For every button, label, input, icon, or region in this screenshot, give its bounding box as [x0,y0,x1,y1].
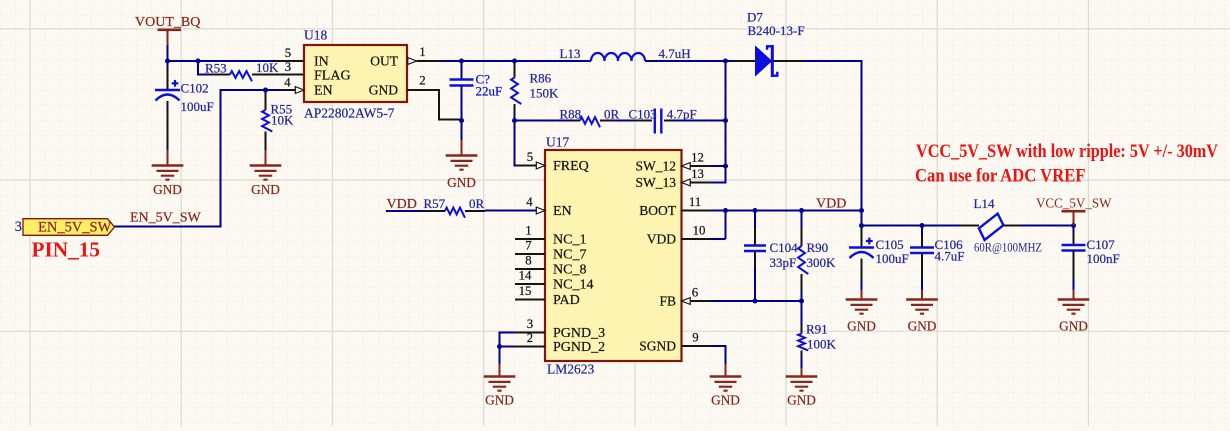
wire EN_5V_SW horizontal [115,226,222,228]
svg-text:FLAG: FLAG [314,69,351,84]
svg-text:GND: GND [847,319,876,334]
svg-text:9: 9 [692,331,698,345]
wire SW vertical [725,60,727,184]
wire BOOT to pin10 [712,211,726,240]
svg-text:100uF: 100uF [181,99,214,114]
svg-text:6: 6 [692,286,699,300]
wire FB net [712,300,803,302]
wire to FREQ pin [515,121,518,167]
svg-text:GND: GND [787,393,816,408]
svg-text:15: 15 [519,284,532,298]
U17 pin 3 PGND_3 [515,317,605,341]
svg-text:EN: EN [314,84,333,99]
svg-text:2: 2 [527,331,533,345]
resistor R55 10K [262,90,294,150]
svg-text:NC_8: NC_8 [553,263,586,278]
capacitor C105 100uF polarized [849,226,909,290]
U17 pin 15 PAD [515,284,580,308]
svg-text:EN_5V_SW: EN_5V_SW [130,211,202,226]
svg-text:EN: EN [553,204,572,219]
wire D7 to VDD node [804,60,863,62]
wire SW_13 stub [712,182,727,184]
diode D7 B240-13-F schottky [731,10,805,78]
node junction C104 bottom [753,299,758,304]
node junction at C102 top [165,59,170,64]
resistor R86 150K [511,61,559,121]
svg-text:13: 13 [691,167,704,181]
svg-text:Can use for ADC VREF: Can use for ADC VREF [915,167,1086,187]
svg-text:GND: GND [1059,319,1088,334]
op-amp U18 AP22802AW5-7 body [304,28,407,121]
wire main input horizontal [167,60,275,62]
svg-text:SW_12: SW_12 [636,159,677,174]
ground GND under R55 [250,166,282,198]
svg-text:3: 3 [285,60,291,74]
ground GND under R91 [786,377,818,408]
U17 pin 7 NC_7 [515,239,586,263]
ground GND under C? [446,156,478,191]
wire SW_12 stub [712,165,726,167]
svg-text:NC_1: NC_1 [553,233,586,248]
power port VCC_5V_SW [1036,197,1112,226]
svg-text:GND: GND [485,393,514,408]
resistor R57 0R [424,196,486,218]
svg-text:FREQ: FREQ [553,159,589,174]
svg-text:4: 4 [284,76,291,90]
ground stem C102 [167,150,169,166]
node junction R90 bottom [799,299,804,304]
svg-text:L14: L14 [974,196,995,211]
svg-text:33pF: 33pF [770,255,797,270]
svg-text:SGND: SGND [639,339,676,354]
ground GND under SGND [710,377,742,408]
power port VOUT_BQ [135,15,200,45]
ground stem R55 [265,150,267,166]
U17 pin 10 VDD [647,224,712,247]
ground GND under C105 [846,300,878,334]
U17 pin 12 SW_12 [636,151,712,174]
svg-text:4.7uF: 4.7uF [935,249,965,264]
svg-text:NC_14: NC_14 [553,278,593,293]
svg-text:IN: IN [314,55,329,70]
node junction R53 branch [196,59,201,64]
node junction PGND_2 [497,344,502,349]
node junction R90 top [799,208,804,213]
svg-text:100uF: 100uF [876,251,909,266]
svg-text:12: 12 [691,151,704,165]
U17 pin 5 FREQ [516,150,589,174]
wire FREQ net horizontal [515,120,572,122]
svg-text:R86: R86 [530,71,552,86]
capacitor C? 22uF [450,61,503,121]
wire C103 to SW node [672,120,727,122]
resistor R91 100K [798,301,836,368]
U17 pin 8 NC_8 [515,254,586,278]
U18 pin 5 IN [274,46,329,70]
svg-text:VCC_5V_SW with low ripple: 5V: VCC_5V_SW with low ripple: 5V +/- 30mV [916,142,1219,162]
wire PGND_2 [500,346,516,348]
svg-text:C107: C107 [1087,237,1116,252]
svg-text:14: 14 [519,269,532,283]
svg-text:VOUT_BQ: VOUT_BQ [135,15,200,30]
svg-text:11: 11 [689,195,701,209]
svg-text:10: 10 [693,224,706,238]
op-amp U17 LM2623 body [545,135,682,377]
ground stem C106 [921,290,923,300]
svg-text:4.7uH: 4.7uH [659,46,691,61]
svg-text:100nF: 100nF [1087,251,1120,266]
U18 pin 2 GND [369,74,461,121]
ferrite bead L14 60R@100MHZ [960,196,1042,255]
ground stem SGND [725,364,727,377]
svg-text:PGND_2: PGND_2 [553,340,605,355]
svg-text:PIN_15: PIN_15 [32,238,101,262]
svg-text:PAD: PAD [553,293,580,308]
wire VDD to R57 [386,210,424,212]
U17 pin 11 BOOT [639,195,711,218]
node junction VDD corner [859,208,864,213]
capacitor C102 100uF polarized [155,62,214,150]
svg-text:EN_5V_SW: EN_5V_SW [38,219,112,235]
svg-text:LM2623: LM2623 [547,362,595,377]
svg-text:10K: 10K [271,113,294,128]
inductor L13 4.7uH [560,46,691,61]
U17 pin 2 PGND_2 [515,331,605,355]
svg-text:GND: GND [711,393,740,408]
U17 pin 9 SGND [639,331,711,354]
svg-text:PGND_3: PGND_3 [553,326,605,341]
ground GND under PGND [484,377,516,408]
svg-text:OUT: OUT [370,54,398,69]
svg-text:4: 4 [526,195,533,209]
svg-text:0R: 0R [604,106,620,121]
svg-text:4.7pF: 4.7pF [667,106,697,121]
resistor R88 0R [560,106,620,127]
svg-text:U17: U17 [546,135,569,150]
U18 pin 3 FLAG [285,60,351,84]
svg-text:GND: GND [153,182,182,197]
node junction SW top [723,59,728,64]
node junction R86 bottom [512,118,517,123]
svg-text:60R@100MHZ: 60R@100MHZ [974,240,1042,255]
node junction VCC_5V_SW [1071,223,1076,228]
svg-text:3: 3 [15,219,22,235]
svg-text:GND: GND [447,175,476,190]
node junction R55 [263,88,268,93]
svg-text:B240-13-F: B240-13-F [748,23,805,38]
wire U18 OUT to L13 [442,60,591,62]
svg-text:R91: R91 [806,322,828,337]
svg-text:BOOT: BOOT [639,203,677,218]
svg-text:10K: 10K [256,60,279,75]
svg-text:FB: FB [659,294,676,309]
wire bead to VCC [1021,225,1075,227]
node junction C106 [920,223,925,228]
resistor R53 10K [205,60,304,81]
wire PGND_3 [500,332,516,334]
svg-text:U18: U18 [304,28,327,43]
node junction BOOT pin10 branch [723,208,728,213]
ground stem C107 [1073,290,1075,300]
node junction SW C103 [723,118,728,123]
svg-text:GND: GND [369,83,398,98]
wire VOUT_BQ to node [167,45,169,62]
capacitor C106 4.7uF [910,226,964,290]
ground GND under C107 [1058,300,1090,334]
svg-text:8: 8 [525,254,531,268]
ground stem PGND [499,364,501,377]
svg-text:5: 5 [285,46,291,60]
svg-text:C102: C102 [181,81,209,96]
svg-text:7: 7 [525,239,532,253]
wire R53 branch vertical [197,61,199,76]
wire C22uF to ground [461,121,463,141]
svg-text:C104: C104 [770,240,799,255]
capacitor C107 100nF [1062,226,1120,290]
svg-text:AP22802AW5-7: AP22802AW5-7 [304,106,395,121]
svg-text:22uF: 22uF [476,84,503,99]
node junction C22uF bottom [459,118,464,123]
svg-text:GND: GND [908,319,937,334]
svg-text:R57: R57 [424,196,446,211]
svg-text:R90: R90 [807,240,829,255]
svg-text:1: 1 [419,45,425,59]
svg-text:C103: C103 [629,106,657,121]
node junction C22uF [459,59,464,64]
U17 pin 13 SW_13 [636,167,712,190]
capacitor C103 4.7pF [629,106,697,133]
svg-text:VDD: VDD [387,197,417,212]
ground GND under C102 [152,166,184,198]
svg-text:5: 5 [527,150,533,164]
svg-text:0R: 0R [469,196,485,211]
wire BOOT to VDD node [712,210,863,212]
svg-text:VCC_5V_SW: VCC_5V_SW [1036,197,1112,212]
svg-text:C105: C105 [876,237,904,252]
svg-text:VDD: VDD [816,197,846,212]
sheet entry port EN_5V_SW [15,219,115,236]
wire EN to U18 [221,89,282,91]
wire R53 branch stub [198,74,210,76]
wire VDD node vertical [861,61,863,227]
svg-text:VDD: VDD [647,232,676,247]
wire PGND vertical [499,332,501,365]
resistor R90 300K [798,211,836,303]
ground GND under C106 [906,300,938,334]
U17 pin 14 NC_14 [515,269,593,293]
svg-text:3: 3 [527,317,533,331]
ground stem R91 [801,368,803,377]
ground stem C22uF [461,140,463,156]
wire VDD node to output rail [862,225,961,227]
svg-text:NC_7: NC_7 [553,248,586,263]
svg-text:300K: 300K [807,255,837,270]
svg-text:L13: L13 [560,46,581,61]
wire R88 to C103 [612,120,631,122]
node junction C104 top [753,208,758,213]
U17 pin 6 FB [659,286,711,309]
node junction SW_12 [723,164,728,169]
wire SGND [712,346,727,364]
svg-text:SW_13: SW_13 [636,175,677,190]
svg-text:GND: GND [251,182,280,197]
U17 pin 1 NC_1 [515,224,586,248]
node junction R86 [512,59,517,64]
U18 pin 1 OUT [370,45,442,69]
svg-text:100K: 100K [807,337,837,352]
node junction C105 [859,223,864,228]
svg-text:R88: R88 [560,106,582,121]
capacitor C104 33pF [744,211,798,303]
svg-text:2: 2 [419,74,425,88]
wire EN_5V_SW vertical [220,89,222,228]
svg-text:1: 1 [525,224,531,238]
U18 pin 4 EN [281,76,333,99]
svg-text:150K: 150K [530,86,560,101]
wire L13 to D7 [645,60,731,62]
U17 pin 4 EN [485,195,572,219]
ground stem C105 [861,290,863,300]
svg-text:R53: R53 [205,61,227,76]
